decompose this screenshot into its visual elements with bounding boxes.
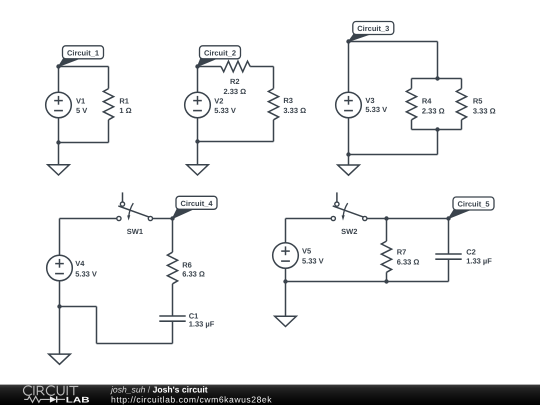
svg-text:V2: V2: [214, 96, 223, 105]
svg-text:5 V: 5 V: [76, 106, 87, 115]
svg-text:5.33 V: 5.33 V: [365, 105, 387, 114]
svg-text:5.33 V: 5.33 V: [302, 257, 324, 266]
svg-text:R6: R6: [182, 260, 192, 269]
svg-text:2.33 Ω: 2.33 Ω: [223, 87, 246, 96]
svg-text:R3: R3: [283, 96, 293, 105]
svg-text:C2: C2: [466, 248, 476, 257]
svg-text:V5: V5: [302, 246, 311, 255]
svg-text:SW1: SW1: [127, 227, 143, 236]
svg-text:5.33 V: 5.33 V: [214, 106, 236, 115]
svg-text:1 Ω: 1 Ω: [119, 106, 131, 115]
svg-text:6.33 Ω: 6.33 Ω: [182, 270, 205, 279]
svg-text:Circuit_5: Circuit_5: [457, 200, 489, 209]
svg-text:http://circuitlab.com/cwm6kawu: http://circuitlab.com/cwm6kawus28ek: [111, 394, 272, 404]
svg-text:R2: R2: [230, 77, 240, 86]
svg-text:2.33 Ω: 2.33 Ω: [422, 107, 445, 116]
svg-text:Circuit_3: Circuit_3: [357, 24, 389, 33]
svg-text:R1: R1: [119, 96, 129, 105]
svg-text:V1: V1: [76, 96, 85, 105]
svg-text:R7: R7: [397, 248, 407, 257]
svg-text:1.33 µF: 1.33 µF: [466, 256, 492, 265]
svg-text:josh_suh / Josh's circuit: josh_suh / Josh's circuit: [110, 384, 208, 394]
svg-text:V4: V4: [75, 259, 85, 268]
svg-text:3.33 Ω: 3.33 Ω: [473, 107, 496, 116]
svg-text:Circuit_4: Circuit_4: [180, 199, 213, 208]
svg-text:3.33 Ω: 3.33 Ω: [283, 106, 306, 115]
svg-text:SW2: SW2: [341, 227, 357, 236]
svg-text:LAB: LAB: [66, 396, 90, 405]
svg-text:1.33 µF: 1.33 µF: [189, 320, 215, 329]
svg-text:6.33 Ω: 6.33 Ω: [397, 257, 420, 266]
svg-text:R5: R5: [473, 97, 483, 106]
svg-text:5.33 V: 5.33 V: [75, 269, 97, 278]
svg-text:R4: R4: [422, 97, 432, 106]
svg-text:Circuit_1: Circuit_1: [67, 48, 99, 57]
svg-text:Circuit_2: Circuit_2: [204, 48, 236, 57]
